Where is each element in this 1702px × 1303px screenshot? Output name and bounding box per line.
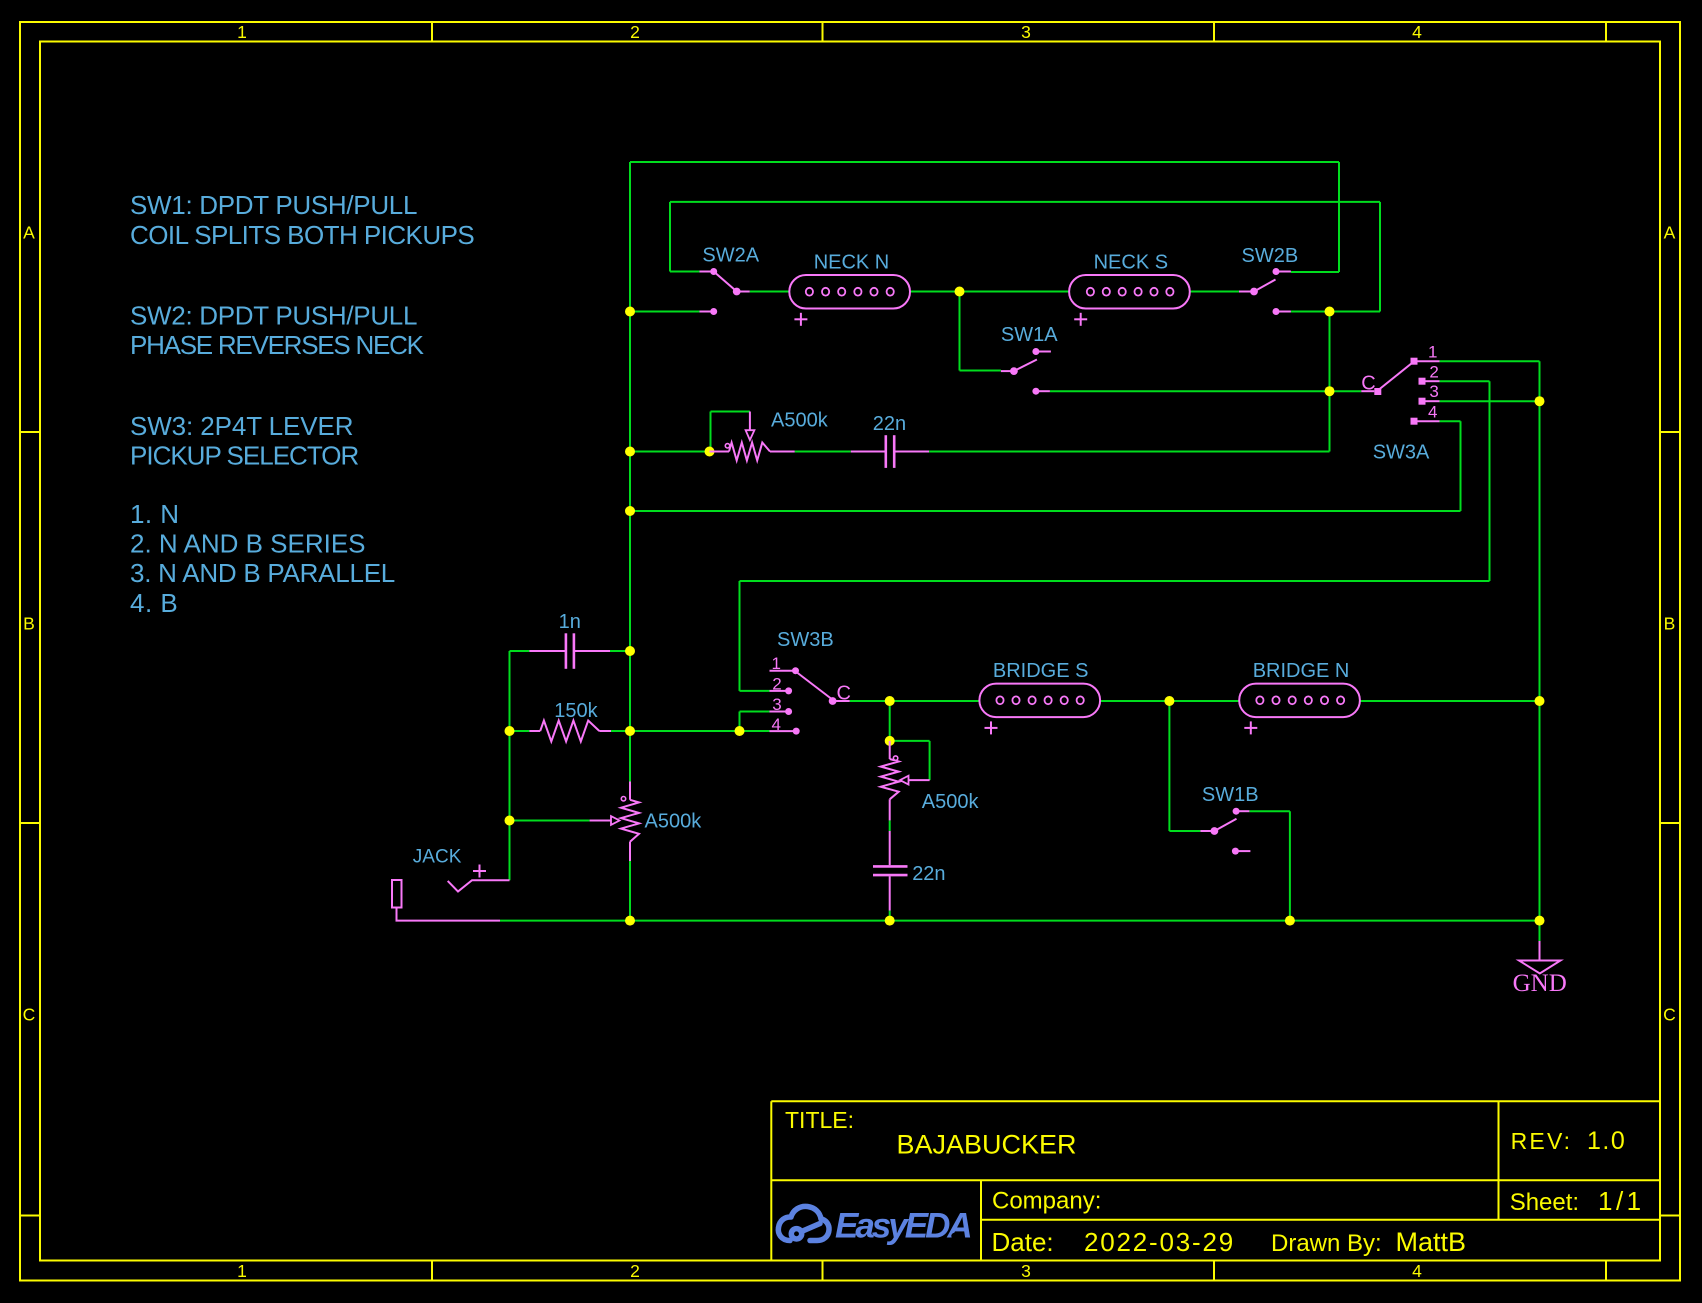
svg-text:SW1B: SW1B <box>1202 784 1259 806</box>
svg-text:A500k: A500k <box>922 791 980 813</box>
svg-text:SW3B: SW3B <box>777 629 834 651</box>
svg-text:EasyEDA: EasyEDA <box>835 1207 970 1246</box>
svg-text:B: B <box>23 613 35 633</box>
svg-text:A500k: A500k <box>771 410 829 432</box>
svg-text:Sheet:: Sheet: <box>1510 1189 1579 1216</box>
svg-text:BRIDGE N: BRIDGE N <box>1253 660 1350 682</box>
svg-text:TITLE:: TITLE: <box>785 1107 854 1133</box>
svg-text:PHASE REVERSES NECK: PHASE REVERSES NECK <box>130 330 425 360</box>
svg-text:2022-03-29: 2022-03-29 <box>1084 1227 1235 1257</box>
svg-text:3: 3 <box>1021 1261 1031 1281</box>
svg-text:A: A <box>1664 222 1676 242</box>
svg-text:1.0: 1.0 <box>1587 1127 1626 1155</box>
svg-text:JACK: JACK <box>413 846 462 867</box>
svg-text:2: 2 <box>630 1261 640 1281</box>
svg-text:SW2A: SW2A <box>702 244 759 266</box>
svg-text:A: A <box>23 222 35 242</box>
svg-text:SW2: DPDT PUSH/PULL: SW2: DPDT PUSH/PULL <box>130 301 417 331</box>
svg-text:Drawn By:: Drawn By: <box>1271 1230 1382 1257</box>
svg-text:150k: 150k <box>554 700 598 722</box>
svg-text:1: 1 <box>1428 342 1437 361</box>
svg-text:2: 2 <box>772 674 781 693</box>
svg-text:SW3: 2P4T LEVER: SW3: 2P4T LEVER <box>130 411 353 441</box>
svg-text:Company:: Company: <box>992 1188 1101 1215</box>
svg-text:COIL SPLITS BOTH PICKUPS: COIL SPLITS BOTH PICKUPS <box>130 220 474 250</box>
svg-text:1: 1 <box>772 654 781 673</box>
svg-text:2: 2 <box>630 22 640 42</box>
svg-text:4: 4 <box>1412 22 1422 42</box>
svg-text:SW1A: SW1A <box>1001 324 1058 346</box>
svg-text:1. N: 1. N <box>130 499 179 529</box>
svg-text:C: C <box>23 1004 36 1024</box>
svg-text:REV:: REV: <box>1511 1128 1573 1154</box>
svg-text:3. N AND B PARALLEL: 3. N AND B PARALLEL <box>130 558 395 588</box>
svg-text:PICKUP SELECTOR: PICKUP SELECTOR <box>130 441 358 471</box>
svg-text:C: C <box>837 682 851 704</box>
svg-text:C: C <box>1361 373 1375 395</box>
svg-text:3: 3 <box>1021 22 1031 42</box>
svg-text:1: 1 <box>237 1261 247 1281</box>
svg-text:A500k: A500k <box>645 811 703 833</box>
svg-text:C: C <box>1663 1004 1676 1024</box>
svg-text:BAJABUCKER: BAJABUCKER <box>897 1130 1077 1160</box>
svg-text:3: 3 <box>1429 382 1438 401</box>
svg-text:SW3A: SW3A <box>1373 442 1430 464</box>
svg-text:4: 4 <box>1412 1261 1422 1281</box>
svg-text:2: 2 <box>1429 363 1438 382</box>
svg-text:1/1: 1/1 <box>1598 1186 1645 1216</box>
svg-text:22n: 22n <box>873 413 906 435</box>
svg-text:SW1: DPDT PUSH/PULL: SW1: DPDT PUSH/PULL <box>130 190 417 220</box>
svg-text:BRIDGE S: BRIDGE S <box>993 660 1089 682</box>
svg-text:3: 3 <box>772 695 781 714</box>
svg-text:MattB: MattB <box>1396 1227 1467 1257</box>
svg-text:1n: 1n <box>559 611 581 633</box>
svg-text:Date:: Date: <box>992 1227 1054 1257</box>
svg-text:B: B <box>1664 613 1676 633</box>
svg-text:SW2B: SW2B <box>1242 245 1299 267</box>
svg-text:NECK N: NECK N <box>814 252 890 274</box>
svg-text:GND: GND <box>1513 970 1567 997</box>
svg-text:1: 1 <box>237 22 247 42</box>
svg-text:4: 4 <box>1428 403 1437 422</box>
svg-text:4. B: 4. B <box>130 588 178 618</box>
svg-text:22n: 22n <box>912 863 945 885</box>
svg-text:4: 4 <box>772 715 781 734</box>
svg-text:NECK S: NECK S <box>1094 252 1168 274</box>
svg-text:2. N AND B SERIES: 2. N AND B SERIES <box>130 529 366 559</box>
